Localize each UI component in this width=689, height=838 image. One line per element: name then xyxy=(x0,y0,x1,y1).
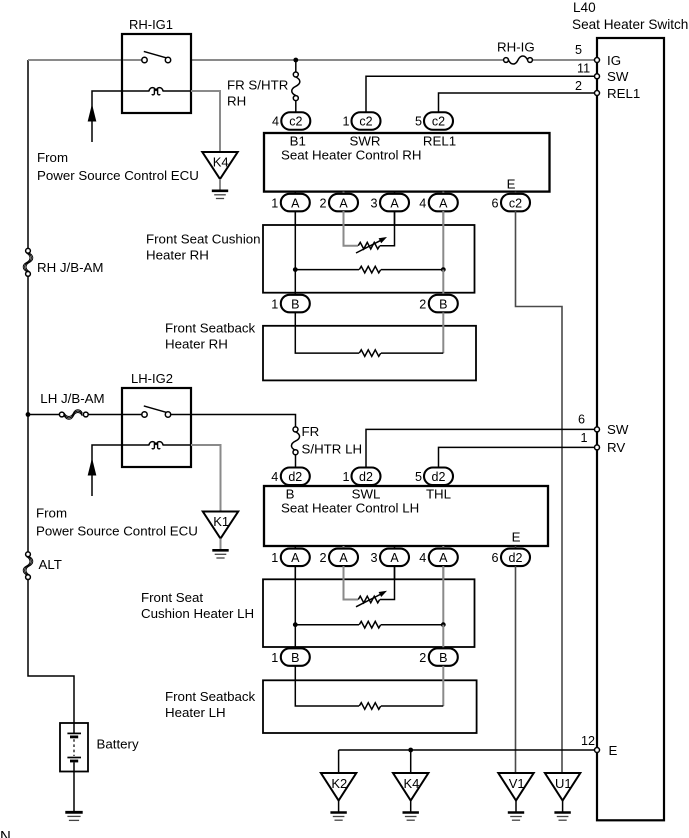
svg-text:Seat Heater Switch: Seat Heater Switch xyxy=(572,17,688,32)
pin 2 REL1 (switch) xyxy=(575,79,640,101)
svg-text:1: 1 xyxy=(271,196,278,210)
svg-text:THL: THL xyxy=(426,487,451,502)
wire: K2 stub xyxy=(338,750,340,773)
heater box: Front Seatback Heater LH xyxy=(165,680,477,733)
svg-text:2: 2 xyxy=(419,651,426,665)
pin 5 IG (switch) xyxy=(575,43,621,68)
fusible link RH-IG xyxy=(497,40,535,65)
svg-text:V1: V1 xyxy=(509,776,525,791)
ground (under K2) xyxy=(330,813,346,821)
node: cushion LH left junction xyxy=(293,622,298,627)
connector pin 4 c2 (B1) xyxy=(272,112,310,130)
ground triangle K2 xyxy=(321,773,356,812)
wire: control RH E to U1 (gray) xyxy=(516,211,563,773)
svg-text:3: 3 xyxy=(370,196,377,210)
svg-text:Seat Heater Control LH: Seat Heater Control LH xyxy=(281,501,419,516)
connector pin 2 B (LH) xyxy=(419,648,458,666)
svg-text:5: 5 xyxy=(575,43,582,57)
svg-text:RH-IG: RH-IG xyxy=(497,40,535,55)
svg-text:1: 1 xyxy=(342,470,349,484)
label: From Power Source Control ECU (LH) xyxy=(36,506,198,539)
svg-text:2: 2 xyxy=(319,196,326,210)
svg-text:c2: c2 xyxy=(359,115,372,129)
wire stubs: control RH bottom pins xyxy=(295,192,515,225)
svg-text:1: 1 xyxy=(342,115,349,129)
svg-text:A: A xyxy=(291,196,300,210)
connector pin 4 A (control LH) xyxy=(419,549,458,567)
svg-text:5: 5 xyxy=(415,470,422,484)
svg-text:Battery: Battery xyxy=(97,737,139,752)
svg-text:c2: c2 xyxy=(509,196,522,210)
fusible link FR S/HTR LH xyxy=(291,424,362,470)
relay LH-IG2 xyxy=(122,371,191,467)
svg-text:E: E xyxy=(507,177,516,192)
wire: From Power Source Control ECU arrow into relay LH coil xyxy=(88,445,123,496)
svg-text:1: 1 xyxy=(271,651,278,665)
svg-text:5: 5 xyxy=(415,115,422,129)
node: cushion RH right junction xyxy=(441,267,446,272)
wire: A4 down through cushion RH (gray) xyxy=(442,211,444,270)
pin 11 SW (switch) xyxy=(577,62,629,85)
svg-text:LH-IG2: LH-IG2 xyxy=(131,371,173,386)
svg-text:RH J/B-AM: RH J/B-AM xyxy=(37,260,104,275)
svg-text:LH J/B-AM: LH J/B-AM xyxy=(40,391,104,406)
wire: left power rail from IG feed down to battery xyxy=(28,60,74,723)
wire: fuse to relay LH-IG2 xyxy=(88,414,122,416)
svg-text:c2: c2 xyxy=(432,115,445,129)
svg-text:K1: K1 xyxy=(213,514,229,529)
svg-text:From: From xyxy=(37,150,68,165)
svg-text:Seat Heater Control RH: Seat Heater Control RH xyxy=(281,148,421,163)
svg-text:2: 2 xyxy=(575,79,582,93)
connector pin 2 B (RH) xyxy=(419,295,458,313)
connector pin 3 A (control RH) xyxy=(370,194,409,212)
svg-text:2: 2 xyxy=(319,551,326,565)
heater box: Front Seatback Heater RH xyxy=(165,321,476,381)
connector pin 6 d2 (E, control LH) xyxy=(491,549,530,567)
svg-text:S/HTR LH: S/HTR LH xyxy=(302,442,363,457)
wire: B1 into seatback LH xyxy=(295,666,359,706)
ground triangle K1 (relay LH) xyxy=(203,512,238,550)
svg-text:K4: K4 xyxy=(213,155,229,170)
svg-text:E: E xyxy=(512,529,521,544)
svg-text:REL1: REL1 xyxy=(607,86,640,101)
ground triangle V1 xyxy=(498,773,533,812)
svg-text:SWL: SWL xyxy=(352,487,381,502)
pin 1 RV (switch) xyxy=(581,431,626,455)
svg-text:A: A xyxy=(339,196,348,210)
svg-text:K4: K4 xyxy=(403,776,419,791)
svg-text:L40: L40 xyxy=(573,0,596,15)
svg-text:FR: FR xyxy=(302,424,320,439)
svg-text:Front Seat: Front Seat xyxy=(141,590,203,605)
svg-text:1: 1 xyxy=(271,297,278,311)
svg-text:IG: IG xyxy=(607,53,621,68)
svg-text:4: 4 xyxy=(419,196,426,210)
relay RH-IG1 xyxy=(122,17,191,113)
svg-text:6: 6 xyxy=(491,551,498,565)
wire: switch E pin 12 to K2/K4 grounds xyxy=(339,749,595,751)
wire: A1 down through cushion RH xyxy=(294,211,296,295)
connector pin 2 A (control LH) xyxy=(319,549,358,567)
svg-text:SWR: SWR xyxy=(349,134,380,149)
connector pin 1 B (RH) xyxy=(271,295,310,313)
svg-text:B: B xyxy=(286,487,295,502)
wire: A4 down through cushion LH (gray) xyxy=(442,566,444,625)
ground triangle U1 xyxy=(545,773,580,812)
wire: A3 to thermistor (RH) xyxy=(380,211,395,246)
node: K4 ground tap xyxy=(408,748,413,753)
wire: RV pin 1 to THL connector xyxy=(439,447,595,469)
node: FR S/HTR RH tap on IG wire xyxy=(293,58,298,63)
svg-text:Cushion Heater LH: Cushion Heater LH xyxy=(141,606,254,621)
fusible link RH J/B-AM xyxy=(23,248,103,276)
ECU box: Seat Heater Control LH xyxy=(264,486,548,546)
svg-text:d2: d2 xyxy=(359,470,373,484)
wire: A2 to thermistor (LH, gray) xyxy=(344,566,359,600)
connector pin 4 d2 (B, control LH) xyxy=(271,468,310,486)
ground (battery) xyxy=(65,812,82,820)
svg-text:A: A xyxy=(339,551,348,565)
battery xyxy=(60,723,139,772)
resistor (seatback heater RH) xyxy=(359,350,443,357)
svg-text:d2: d2 xyxy=(432,470,446,484)
svg-text:Front Seatback: Front Seatback xyxy=(165,321,256,336)
svg-text:Power Source Control ECU: Power Source Control ECU xyxy=(36,524,198,539)
svg-text:4: 4 xyxy=(271,470,278,484)
svg-text:A: A xyxy=(439,196,448,210)
wire: A3 to thermistor (LH) xyxy=(380,566,395,600)
svg-text:B: B xyxy=(291,297,299,311)
svg-text:E: E xyxy=(609,743,618,758)
svg-text:REL1: REL1 xyxy=(423,134,456,149)
wire: SW pin 6 to SWL connector xyxy=(366,429,595,469)
svg-text:d2: d2 xyxy=(509,551,523,565)
ground triangle K4 (relay RH) xyxy=(202,152,237,190)
connector pin 1 B (LH) xyxy=(271,648,310,666)
wire: A2 to thermistor (RH, gray) xyxy=(344,211,359,246)
wire: From Power Source Control ECU arrow into relay RH coil xyxy=(88,91,123,142)
switch box: L40 Seat Heater Switch xyxy=(572,0,688,820)
svg-text:Heater LH: Heater LH xyxy=(165,705,226,720)
connector pin 1 A (control LH) xyxy=(271,549,310,567)
svg-text:4: 4 xyxy=(419,551,426,565)
wire: control LH E to V1 (gray) xyxy=(515,566,517,773)
heater box: Front Seat Cushion Heater LH xyxy=(141,579,475,647)
svg-text:ALT: ALT xyxy=(39,557,62,572)
svg-text:6: 6 xyxy=(578,413,585,427)
svg-text:A: A xyxy=(439,551,448,565)
svg-text:Heater RH: Heater RH xyxy=(146,248,209,263)
svg-text:K2: K2 xyxy=(331,776,347,791)
heater box: Front Seat Cushion Heater RH xyxy=(146,225,475,293)
thermistor (cushion LH) xyxy=(356,591,387,607)
wire: B1 into seatback RH xyxy=(295,312,359,353)
fusible link FR S/HTR RH xyxy=(227,60,300,114)
wire: A1 down through cushion LH xyxy=(294,566,296,649)
svg-text:11: 11 xyxy=(577,62,590,76)
thermistor (cushion RH) xyxy=(356,237,387,253)
connector pin 1 A (control RH) xyxy=(271,194,310,212)
svg-text:Heater RH: Heater RH xyxy=(165,337,228,352)
svg-text:d2: d2 xyxy=(288,470,302,484)
svg-text:RH-IG1: RH-IG1 xyxy=(129,17,173,32)
svg-text:RV: RV xyxy=(607,440,625,455)
svg-text:SW: SW xyxy=(607,69,629,84)
svg-text:A: A xyxy=(390,196,399,210)
svg-text:4: 4 xyxy=(272,115,279,129)
ground (under V1) xyxy=(508,813,524,821)
svg-text:U1: U1 xyxy=(555,776,572,791)
svg-text:FR S/HTR: FR S/HTR xyxy=(227,78,288,93)
wire: IG feed (gray) from rail to seat heater switch xyxy=(28,59,595,61)
wire stubs: control LH bottom pins xyxy=(295,546,515,579)
connector pin 1 d2 (SWL) xyxy=(342,468,380,486)
resistor (seatback heater LH) xyxy=(359,703,443,710)
svg-text:B1: B1 xyxy=(290,134,306,149)
node: cushion LH right junction xyxy=(441,622,446,627)
svg-text:Front Seatback: Front Seatback xyxy=(165,689,256,704)
svg-text:1: 1 xyxy=(581,431,588,445)
svg-text:1: 1 xyxy=(271,551,278,565)
svg-text:A: A xyxy=(291,551,300,565)
svg-text:c2: c2 xyxy=(289,115,302,129)
wire: B2 into seatback LH (gray) xyxy=(442,666,444,706)
svg-text:B: B xyxy=(439,651,447,665)
ground triangle K4 (switch) xyxy=(393,773,428,812)
connector pin 1 c2 (SWR) xyxy=(342,112,380,130)
wire: B2 stub (RH, gray) xyxy=(442,270,444,295)
wire: relay LH-IG2 output to FR S/HTR LH xyxy=(171,415,296,428)
resistor (cushion heater LH) xyxy=(295,621,443,628)
connector pin 2 A (control RH) xyxy=(319,194,358,212)
svg-text:Front Seat Cushion: Front Seat Cushion xyxy=(146,232,261,247)
ground (under U1) xyxy=(554,813,570,821)
svg-text:12: 12 xyxy=(581,734,595,748)
connector pin 5 c2 (REL1) xyxy=(415,112,453,130)
connector pin 6 c2 (E, control RH) xyxy=(491,194,530,212)
fusible link ALT xyxy=(23,552,62,580)
svg-text:B: B xyxy=(439,297,447,311)
node: LH branch tap on rail xyxy=(26,412,31,417)
wire: K4 stub xyxy=(410,750,412,773)
ground (under K4 switch) xyxy=(403,813,419,821)
svg-text:B: B xyxy=(291,651,299,665)
wire: rail to LH J/B-AM fuse xyxy=(28,414,59,416)
ground (under K4 relay RH) xyxy=(212,191,228,199)
connector pin 4 A (control RH) xyxy=(419,194,458,212)
svg-text:SW: SW xyxy=(607,422,629,437)
ground (under K1) xyxy=(212,550,228,558)
node: cushion RH left junction xyxy=(293,267,298,272)
resistor (cushion heater RH) xyxy=(295,266,443,273)
pin 12 E (switch) xyxy=(581,734,618,758)
wire: relay coil RH to K4 ground (gray) xyxy=(191,91,220,152)
svg-text:A: A xyxy=(390,551,399,565)
svg-text:Power Source Control ECU: Power Source Control ECU xyxy=(37,168,199,183)
svg-text:3: 3 xyxy=(370,551,377,565)
wire: SW pin 11 to SWR connector xyxy=(366,76,595,114)
connector pin 3 A (control LH) xyxy=(370,549,409,567)
wire: B2 stub (LH, gray) xyxy=(442,625,444,649)
svg-text:RH: RH xyxy=(227,94,246,109)
svg-text:6: 6 xyxy=(491,196,498,210)
connector pin 5 d2 (THL) xyxy=(415,468,453,486)
svg-text:2: 2 xyxy=(419,297,426,311)
wire: REL1 pin 2 to REL1 connector xyxy=(439,93,595,114)
label: From Power Source Control ECU (RH) xyxy=(37,150,199,183)
ECU box: Seat Heater Control RH xyxy=(264,133,550,192)
svg-text:From: From xyxy=(36,506,67,521)
wire: B2 into seatback RH (gray) xyxy=(442,312,444,353)
pin 6 SW (switch) xyxy=(578,413,629,438)
svg-text:N: N xyxy=(0,828,11,838)
wire: battery to ground xyxy=(73,772,75,812)
fusible link LH J/B-AM xyxy=(40,391,104,419)
wire: relay coil LH to K1 ground (gray) xyxy=(191,445,221,512)
